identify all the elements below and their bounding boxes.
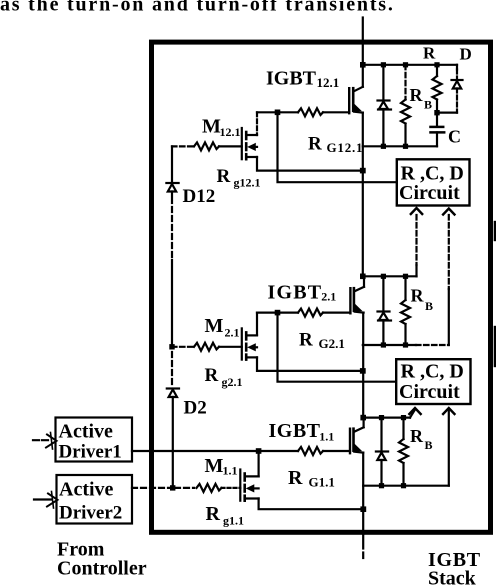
svg-text:M: M — [205, 315, 224, 337]
svg-text:R: R — [411, 286, 425, 306]
resistor RG1.1 zigzag — [298, 447, 323, 455]
svg-text:IGBT: IGBT — [266, 68, 317, 90]
arrow into box1 pin2 — [443, 209, 454, 215]
node: gate node dot stage2 — [275, 310, 281, 316]
resistor Rg1.1 zigzag — [197, 484, 222, 492]
wire: D branch corner — [456, 65, 458, 70]
wire: bus IGBT2 emitter down — [362, 313, 364, 418]
node: dot M1.1 source at bus — [360, 506, 366, 512]
resistor RG12.1 zigzag — [298, 108, 323, 116]
svg-text:R: R — [410, 426, 424, 446]
igbt Q12.1 symbol — [348, 88, 350, 113]
svg-text:D12: D12 — [183, 186, 216, 207]
wire: left clamp column upper — [171, 146, 173, 182]
svg-text:G12.1: G12.1 — [327, 140, 364, 155]
svg-text:C: C — [448, 127, 461, 147]
wire: M2.1 drain link — [256, 313, 258, 335]
node: dot zener12 top — [381, 62, 386, 67]
svg-text:1.1: 1.1 — [223, 464, 238, 478]
wire: below D2 — [172, 397, 174, 488]
resistor Rg2.1 zigzag — [194, 343, 219, 351]
node: dot R-C-D junction — [434, 110, 439, 115]
wire: box2 pin2 riser — [448, 410, 450, 486]
wire: bus below frame — [362, 534, 364, 549]
svg-text:B: B — [424, 98, 432, 112]
igbt Q1.1 symbol — [349, 429, 351, 454]
resistor RG2.1 zigzag — [298, 309, 323, 317]
node: dot RB12 bottom — [403, 144, 408, 149]
wire: gate line stage12 — [257, 111, 298, 113]
wire: RB2 branch bottom — [404, 324, 406, 345]
mosfet M2.1 symbol — [241, 328, 243, 359]
zener diode stage2 — [378, 310, 390, 312]
node: dot clamp column end — [170, 485, 175, 490]
svg-text:R: R — [308, 134, 322, 155]
wire: feed to M gate — [219, 145, 242, 147]
arrow into box2 pin1 — [409, 408, 420, 414]
resistor RB1 zigzag — [399, 439, 408, 463]
node: dot RB1 bottom — [401, 483, 406, 488]
wire: zener12 branch bottom — [382, 110, 384, 147]
wire: bus IGBT12 emitter down — [362, 113, 364, 277]
node: gate node dot stage12 — [275, 110, 281, 116]
wire: bus IGBT1 emitter down to frame — [362, 453, 364, 534]
node: dot M1.1 drain tap — [256, 448, 262, 454]
svg-text:Stack: Stack — [428, 568, 477, 588]
wire: D branch dashed upper — [456, 70, 458, 80]
wire: driver2 dashed feed — [132, 487, 171, 489]
svg-text:D: D — [460, 45, 472, 64]
wire: main bus top lead — [362, 18, 364, 65]
svg-text:Active: Active — [59, 479, 114, 501]
svg-text:R: R — [299, 330, 313, 351]
igbt Q2.1 symbol — [349, 288, 351, 313]
wire: gate line stage2 — [257, 312, 298, 314]
node: dot RB1 top — [401, 415, 406, 420]
wire: M2.1 source to bus — [257, 357, 360, 371]
svg-text:2.1: 2.1 — [321, 290, 336, 304]
svg-text:M: M — [205, 455, 224, 477]
svg-text:R: R — [423, 44, 436, 63]
svg-text:IGBT: IGBT — [268, 282, 323, 304]
svg-text:D2: D2 — [184, 398, 207, 419]
diode stage1 — [376, 450, 388, 452]
svg-text:Active: Active — [59, 421, 114, 443]
scan mark right edge upper — [494, 222, 496, 240]
zener diode stage12 — [378, 99, 390, 101]
wire: gate line to igbt1 — [323, 450, 350, 452]
wire: box1 pin2 dashed drop — [448, 215, 450, 289]
svg-text:g1.1: g1.1 — [223, 514, 244, 528]
wire: stage2 bottom dashed extension — [416, 344, 449, 346]
wire: RB12 branch top (dashed) — [404, 65, 406, 100]
mosfet M1.1 symbol — [239, 470, 241, 501]
svg-text:2.1: 2.1 — [225, 326, 240, 340]
wire: box2 pin1 bend — [410, 410, 415, 418]
node: dot zener12 bottom — [381, 144, 386, 149]
svg-text:Circuit: Circuit — [399, 182, 460, 204]
wire: M12.1 drain dashed link — [256, 112, 258, 135]
arrow into box1 pin1 — [411, 208, 422, 214]
svg-text:G2.1: G2.1 — [319, 336, 345, 351]
wire: diode1 branch top — [380, 418, 382, 451]
wire: stage1 bottom branch line — [363, 485, 449, 487]
wire: left clamp solid mid — [171, 260, 173, 347]
node: dot diode1 bottom — [379, 483, 384, 488]
wire: D branch dashed lower — [456, 89, 458, 113]
node: collector 1.1 junction dot — [360, 415, 366, 421]
wire: RB1 branch top — [402, 418, 404, 439]
wire: gate feed dashed stage2 — [172, 346, 194, 348]
node: dot zener2 bottom — [381, 342, 386, 347]
box: R C D circuit 2 — [396, 359, 470, 404]
node: dot RB2 bottom — [403, 342, 408, 347]
svg-text:M: M — [202, 116, 221, 138]
arrow into driver1 — [33, 439, 50, 441]
wire: left clamp dashed below junction — [171, 352, 173, 385]
scan mark right edge lower — [494, 327, 496, 366]
svg-text:B: B — [425, 299, 433, 313]
svg-text:Driver1: Driver1 — [59, 442, 122, 463]
svg-text:B: B — [425, 438, 433, 452]
wire: stage1 top branch line — [363, 417, 410, 419]
wire: RB12 branch bottom — [404, 124, 406, 147]
wire: zener2 branch bottom — [382, 321, 384, 346]
node: collector 12.1 junction dot — [360, 62, 366, 68]
svg-text:R: R — [288, 467, 303, 489]
diode D2 — [167, 387, 179, 389]
wire: stage2 bottom branch line — [363, 344, 416, 346]
mosfet M12.1 symbol — [241, 128, 243, 159]
svg-text:G1.1: G1.1 — [309, 475, 335, 490]
svg-text:g12.1: g12.1 — [234, 176, 261, 190]
wire: stage12 top branch line — [363, 64, 457, 66]
svg-text:12.1: 12.1 — [220, 125, 241, 139]
wire: M12.1 source to bus — [257, 157, 360, 171]
node: collector 2.1 junction dot — [360, 274, 366, 280]
wire: gate node drop stage12 — [278, 112, 396, 182]
wire: feed dash-dot to M1 gate — [222, 487, 241, 489]
wire: C bottom lead — [436, 132, 438, 146]
svg-text:R: R — [206, 503, 221, 525]
wire: left clamp dashed mid — [171, 207, 173, 260]
frame: IGBT stack outline — [152, 42, 491, 532]
svg-text:R ,C, D: R ,C, D — [401, 361, 464, 383]
resistor Rg12.1 zigzag — [194, 142, 219, 150]
node: dot M2.1 source at bus — [360, 368, 366, 374]
diode D12 — [166, 182, 178, 184]
wire: feed to M2 gate — [219, 346, 242, 348]
wire: zener12 branch top — [382, 65, 384, 100]
node: dot RB12 top — [403, 62, 408, 67]
svg-text:1.1: 1.1 — [319, 430, 334, 444]
resistor R zigzag — [433, 76, 442, 100]
node: dot clamp junction stage2 — [169, 344, 174, 349]
wire: RB1 branch bottom — [402, 463, 404, 486]
wire: R branch top — [436, 65, 438, 76]
resistor RB12 zigzag — [401, 100, 410, 124]
svg-text:Driver2: Driver2 — [59, 503, 122, 524]
svg-text:R: R — [205, 365, 219, 386]
wire: RB2 branch top — [404, 276, 406, 300]
resistor RB2 zigzag — [401, 300, 410, 324]
wire: D branch connector — [437, 111, 457, 113]
arrow into driver2 — [34, 498, 51, 500]
wire: bus dash below frame — [362, 553, 364, 559]
wire: stage12 bottom branch line — [363, 145, 437, 147]
svg-text:R: R — [410, 85, 424, 105]
wire: M1.1 drain link — [258, 451, 260, 476]
wire: zener2 branch top — [382, 276, 384, 310]
wire: R to node — [436, 100, 438, 127]
wire: driver1 output gate line stage1 — [132, 450, 298, 452]
node: dot M12.1 source at bus — [360, 168, 366, 174]
node: dot zener2 top — [381, 274, 386, 279]
capacitor C — [431, 126, 444, 129]
svg-text:Circuit: Circuit — [399, 381, 460, 403]
svg-text:as the turn-on and turn-off tr: as the turn-on and turn-off transients. — [0, 0, 395, 16]
svg-text:Controller: Controller — [57, 558, 147, 580]
wire: diode1 branch bottom — [380, 460, 382, 486]
wire: stage2 top branch line — [363, 275, 417, 277]
box: Active Driver2 — [57, 475, 133, 524]
node: dot diode1 top — [379, 415, 384, 420]
svg-text:12.1: 12.1 — [317, 75, 340, 90]
wire: below D12 — [171, 192, 173, 204]
wire: gate feed dashed stage12 — [172, 145, 194, 147]
box: Active Driver1 — [56, 418, 133, 462]
node: dot R top — [434, 62, 439, 67]
arrow into box2 pin2 — [443, 408, 454, 414]
wire: M1.1 source to bus — [259, 499, 361, 510]
wire: feed dashes to Rg1.1 — [175, 487, 194, 489]
diode D (snubber) — [452, 79, 463, 81]
box: R C D circuit 1 — [397, 159, 470, 205]
wire: box1 pin1 dashed drop — [415, 215, 417, 265]
svg-text:IGBT: IGBT — [269, 420, 321, 442]
wire: gate line to igbt — [323, 111, 349, 113]
svg-text:g2.1: g2.1 — [222, 375, 243, 389]
node: dot RB2 top — [403, 274, 408, 279]
wire: gate line to igbt2 — [323, 312, 350, 314]
wire: gate node drop stage2 — [278, 313, 396, 382]
svg-text:R: R — [217, 166, 231, 187]
